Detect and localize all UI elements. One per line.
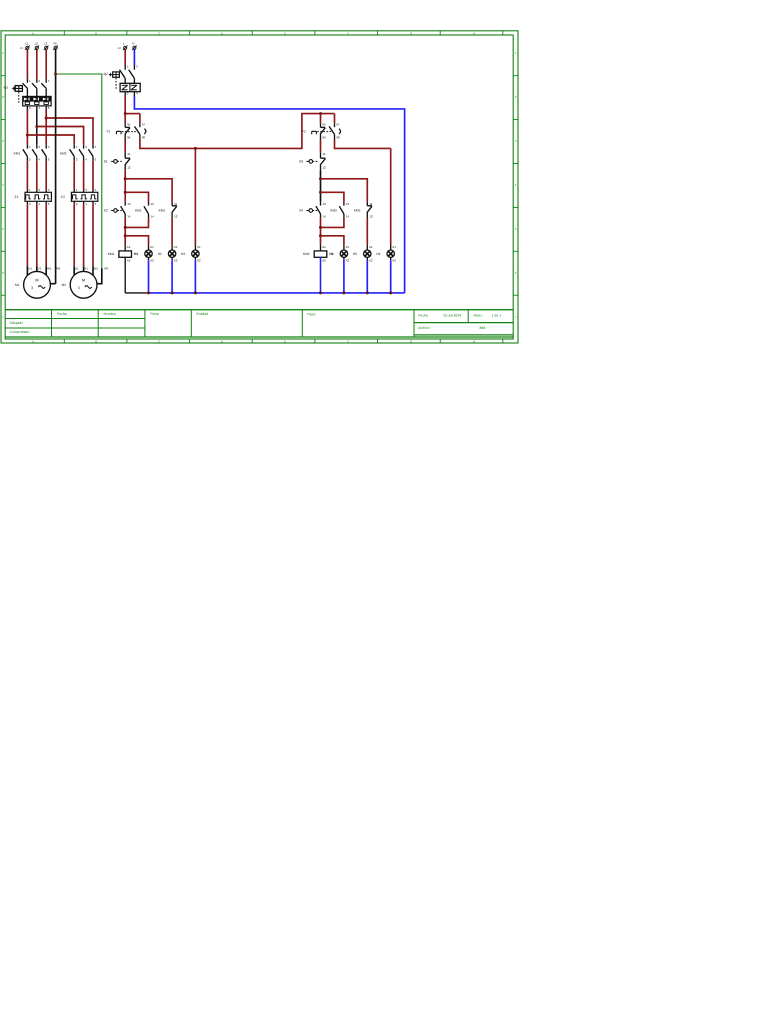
svg-text:L1: L1 [25,41,29,45]
svg-text:KM1: KM1 [14,151,21,155]
svg-text:F: F [347,339,349,343]
svg-text:14: 14 [151,214,155,218]
svg-text:X2: X2 [150,258,154,262]
svg-text:B: B [95,31,97,35]
svg-text:PE: PE [104,267,108,271]
svg-text:96: 96 [127,136,131,140]
svg-text:Dibujado: Dibujado [10,321,24,325]
svg-text:95: 95 [127,123,131,127]
svg-text:X1: X1 [369,245,373,249]
svg-text:Fecha: Fecha [418,314,428,318]
svg-text:Firma: Firma [150,312,159,316]
svg-text:11: 11 [174,202,177,206]
svg-text:L3: L3 [44,41,48,45]
svg-text:A: A [32,31,34,35]
svg-text:S2: S2 [104,209,108,213]
svg-text:KM2: KM2 [60,151,67,155]
svg-text:N: N [132,41,134,45]
svg-text:-Q1: -Q1 [3,85,9,89]
svg-text:M: M [82,278,85,283]
svg-text:H: H [473,31,475,35]
svg-text:E: E [284,31,286,35]
svg-text:L2: L2 [35,41,39,45]
svg-text:15-Jul-2024: 15-Jul-2024 [443,314,461,318]
svg-text:95: 95 [322,123,326,127]
svg-text:S1: S1 [104,159,108,163]
svg-text:G: G [410,339,412,343]
svg-text:-Q2: -Q2 [103,72,109,76]
svg-text:KM2: KM2 [303,252,310,256]
svg-text:S4: S4 [299,209,303,213]
svg-text:13: 13 [127,202,131,206]
svg-text:H1: H1 [134,252,138,256]
svg-text:A1: A1 [322,245,326,249]
svg-text:D: D [221,339,223,343]
svg-text:KM1: KM1 [108,252,115,256]
svg-text:X1: X1 [150,245,154,249]
svg-text:H2: H2 [158,252,162,256]
svg-text:97: 97 [142,123,146,127]
svg-text:96: 96 [322,136,326,140]
svg-text:X2: X2 [346,258,350,262]
svg-text:Archivo: Archivo [418,326,430,330]
svg-text:Núm.:: Núm.: [474,314,483,318]
svg-text:W1: W1 [47,267,52,271]
svg-text:V1: V1 [38,267,42,271]
svg-text:F1: F1 [107,130,111,134]
svg-text:13: 13 [346,202,350,206]
svg-text:97: 97 [336,123,340,127]
svg-text:V1: V1 [84,267,88,271]
svg-text:H6: H6 [376,252,380,256]
svg-text:KM1: KM1 [159,209,166,213]
svg-text:X2: X2 [174,258,178,262]
svg-text:U1: U1 [28,267,32,271]
svg-text:KM2: KM2 [330,209,337,213]
svg-text:3: 3 [78,286,80,290]
svg-text:3: 3 [31,286,33,290]
svg-text:12: 12 [127,166,131,170]
svg-text:X2: X2 [392,258,396,262]
svg-text:868: 868 [480,326,486,330]
svg-text:X1: X1 [197,245,201,249]
svg-text:Nombre: Nombre [104,312,116,316]
svg-text:98: 98 [142,136,146,140]
svg-text:Entidad: Entidad [197,312,209,316]
svg-text:11: 11 [369,202,372,206]
svg-text:KM2: KM2 [354,209,361,213]
svg-text:-X2: -X2 [117,47,122,50]
svg-text:Título: Título [307,313,316,317]
svg-text:98: 98 [336,136,340,140]
svg-text:A2: A2 [322,258,326,262]
svg-text:F: F [347,31,349,35]
svg-text:X2: X2 [369,258,373,262]
svg-text:A2: A2 [127,258,131,262]
svg-text:KM1: KM1 [135,209,142,213]
svg-text:C: C [158,339,160,343]
svg-text:14: 14 [346,214,350,218]
svg-text:13: 13 [151,202,155,206]
svg-text:PE: PE [57,267,61,271]
svg-text:H5: H5 [353,252,357,256]
svg-text:A: A [32,339,34,343]
svg-text:H3: H3 [181,252,185,256]
svg-text:H: H [473,339,475,343]
svg-text:12: 12 [369,214,373,218]
svg-text:Comprobado: Comprobado [10,330,30,334]
svg-text:F2: F2 [302,130,306,134]
svg-text:11: 11 [323,152,326,156]
svg-text:X1: X1 [174,245,178,249]
svg-text:13: 13 [323,202,327,206]
svg-text:11: 11 [127,152,130,156]
svg-text:1 de 1: 1 de 1 [492,314,502,318]
svg-text:U1: U1 [75,267,79,271]
svg-text:M1: M1 [15,283,20,287]
svg-text:X1: X1 [392,245,396,249]
svg-text:B: B [95,339,97,343]
svg-text:12: 12 [174,214,178,218]
svg-text:Fecha: Fecha [57,312,67,316]
svg-text:14: 14 [127,214,131,218]
svg-text:M: M [35,278,38,283]
svg-text:-X1: -X1 [19,47,24,50]
svg-text:-F2: -F2 [60,195,65,199]
svg-text:A1: A1 [127,245,131,249]
svg-text:W1: W1 [94,267,99,271]
svg-text:G: G [410,31,412,35]
svg-text:E: E [284,339,286,343]
svg-text:PE: PE [53,41,57,45]
svg-text:-F1: -F1 [14,195,19,199]
svg-text:X1: X1 [346,245,350,249]
svg-text:14: 14 [323,214,327,218]
svg-text:H4: H4 [329,252,333,256]
svg-text:C: C [158,31,160,35]
svg-text:12: 12 [323,166,327,170]
svg-text:X2: X2 [197,258,201,262]
svg-text:S3: S3 [299,159,303,163]
svg-text:M2: M2 [62,283,67,287]
svg-text:D: D [221,31,223,35]
